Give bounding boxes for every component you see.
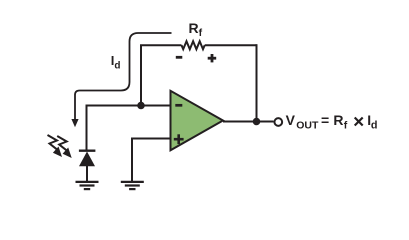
resistor plus label	[208, 54, 217, 62]
wire photodiode to ground	[86, 166, 88, 182]
svg-text:V: V	[286, 112, 296, 128]
wire feedback top right segment	[205, 44, 257, 46]
op-amp plus label	[174, 134, 184, 144]
svg-text:f: f	[344, 119, 348, 131]
svg-text:=: =	[321, 112, 329, 128]
op-amp minus label	[175, 104, 182, 107]
ground (photodiode)	[76, 182, 99, 189]
photodiode D1	[79, 151, 96, 167]
wire feedback left vertical	[140, 45, 142, 105]
node junction dot (inverting input)	[137, 102, 145, 110]
light arrow 2	[57, 136, 71, 158]
wire non-inverting input	[132, 139, 171, 182]
label Vout equation	[286, 112, 378, 132]
svg-text:Rf: Rf	[189, 20, 203, 39]
wire main horizontal to inverting input	[87, 106, 171, 151]
output terminal circle	[274, 118, 282, 126]
wire feedback top left segment	[140, 44, 182, 46]
wire output	[223, 121, 274, 123]
svg-text:d: d	[371, 119, 378, 131]
svg-text:OUT: OUT	[296, 119, 319, 131]
node junction dot (output)	[253, 118, 261, 126]
ground (non-inverting input)	[121, 182, 144, 189]
svg-text:Id: Id	[111, 53, 121, 72]
svg-text:R: R	[333, 112, 343, 128]
op-amp U1	[171, 91, 224, 151]
resistor minus label	[176, 56, 183, 59]
current Id indicator arrow	[75, 33, 172, 120]
resistor Rf	[182, 41, 205, 49]
wire feedback right vertical	[256, 44, 258, 121]
light arrow 1	[48, 135, 63, 157]
